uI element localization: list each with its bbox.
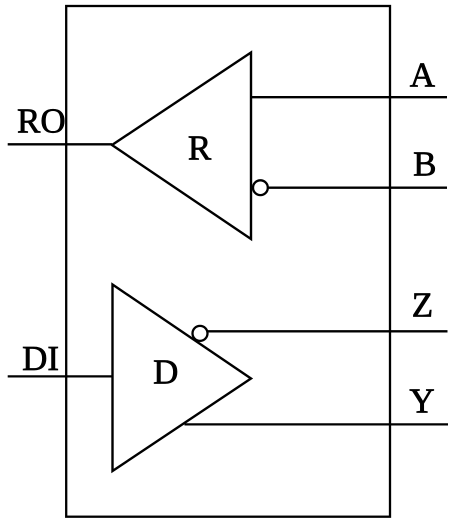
wire B (268, 187, 447, 189)
wire DI (8, 375, 113, 377)
svg-text:B: B (413, 145, 436, 184)
inversion bubble on Z output (193, 326, 208, 341)
wire Z (208, 330, 448, 332)
receiver triangle R (112, 53, 251, 240)
inversion bubble on B input (253, 180, 268, 195)
svg-text:Y: Y (409, 381, 434, 420)
svg-text:RO: RO (17, 102, 66, 141)
svg-text:DI: DI (22, 339, 59, 378)
IC body box (66, 6, 390, 517)
svg-text:Z: Z (412, 285, 433, 324)
wire Y (185, 423, 449, 425)
wire A (251, 96, 447, 98)
svg-text:R: R (188, 129, 212, 168)
driver triangle D (113, 285, 252, 472)
wire RO (8, 143, 112, 145)
svg-text:D: D (153, 353, 178, 392)
svg-text:A: A (410, 56, 436, 95)
